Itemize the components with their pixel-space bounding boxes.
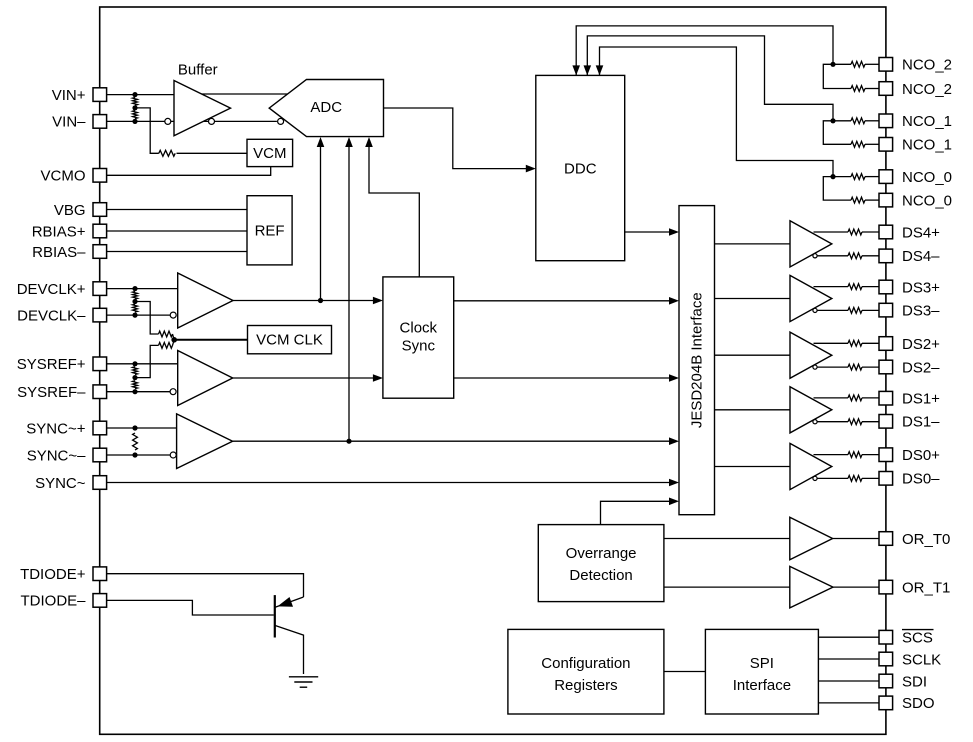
svg-text:DEVCLK+: DEVCLK+ [17, 281, 86, 298]
svg-text:VIN+: VIN+ [52, 87, 86, 104]
junction NCO_0 [830, 174, 835, 179]
bubble DS0- out [813, 476, 817, 480]
pin SYSREF– (left) [93, 385, 107, 399]
wire SYSREF mid tap to R [135, 345, 159, 377]
pin NCO_0 (right) [879, 193, 893, 207]
wire Clock Sync out 1 to JESD [454, 300, 677, 302]
pin DS1+ (right) [879, 391, 893, 405]
bubble DS3- out [813, 308, 817, 312]
wire NCO_2 loop [823, 64, 851, 88]
pin DEVCLK– (left) [93, 308, 107, 322]
resistor divider SYSREF upper [133, 367, 138, 375]
svg-text:OR_T1: OR_T1 [902, 579, 950, 596]
Overrange Detection block [538, 525, 664, 602]
pin DS4+ (right) [879, 225, 893, 239]
pin NCO_1 (right) [879, 138, 893, 152]
svg-text:DS2–: DS2– [902, 359, 940, 376]
wire DS4+ out [814, 231, 849, 233]
wire DS3+ out [814, 286, 849, 288]
pin DS0– (right) [879, 472, 893, 486]
junction DEVCLK out [318, 298, 323, 303]
junction DEVCLK+ tap [132, 286, 137, 291]
svg-text:TDIODE–: TDIODE– [20, 593, 86, 610]
wire SYNC buffer out to JESD [233, 440, 677, 442]
wire NCO_1 lower to pin [865, 143, 879, 145]
wire DS0+ out [814, 454, 849, 456]
svg-text:SDI: SDI [902, 673, 927, 690]
wire DEVCLK+ to buffer [107, 288, 178, 290]
wire DS2+ to pin [862, 342, 879, 344]
wire DS1- out [817, 421, 849, 423]
svg-text:DS3–: DS3– [902, 302, 940, 319]
wire DS1+ to pin [862, 397, 879, 399]
svg-text:NCO_2: NCO_2 [902, 57, 952, 74]
svg-text:NCO_1: NCO_1 [902, 113, 952, 130]
pin SCLK (right) [879, 652, 893, 666]
wire TDIODE- to transistor base [107, 600, 274, 615]
svg-text:DS3+: DS3+ [902, 279, 940, 296]
chip boundary [100, 7, 886, 734]
pin SDO (right) [879, 696, 893, 710]
pin TDIODE– (left) [93, 594, 107, 608]
wire DS4- to pin [862, 255, 879, 257]
wire Overrange out 1 [664, 586, 790, 588]
resistor NCO_1 lower [851, 141, 865, 147]
svg-text:DDC: DDC [564, 160, 597, 177]
DDC block [536, 75, 625, 260]
VCM CLK block [248, 326, 332, 354]
wire SYSREF buffer out to Clock Sync [233, 377, 381, 379]
wire SYNC~ pin to JESD [107, 482, 677, 484]
wire VIN- to ADC lower slant [107, 120, 277, 122]
pin SYSREF+ (left) [93, 357, 107, 371]
pin SYNC~+ (left) [93, 421, 107, 435]
pin DS2– (right) [879, 360, 893, 374]
wire NCO_0 upper lead [833, 176, 851, 178]
svg-text:RBIAS–: RBIAS– [32, 244, 86, 261]
wire DEVCLK buffer out to Clock Sync [233, 300, 381, 302]
svg-text:VCM CLK: VCM CLK [256, 332, 323, 349]
svg-text:DS1–: DS1– [902, 414, 940, 431]
wire SYSREF- to buffer [107, 391, 170, 393]
junction SYSREF- tap [132, 389, 137, 394]
resistor NCO_0 lower [851, 197, 865, 203]
bubble SYSREF- input [170, 389, 176, 395]
svg-text:TDIODE+: TDIODE+ [20, 566, 86, 583]
svg-text:DS1+: DS1+ [902, 391, 940, 408]
wire DEVCLK mid tap to R [135, 302, 159, 335]
resistor DS4- [848, 253, 862, 259]
driver OR_T0 [790, 517, 833, 559]
svg-text:NCO_1: NCO_1 [902, 137, 952, 154]
junction VIN+ tap [132, 92, 137, 97]
svg-text:SYNC~: SYNC~ [35, 475, 86, 492]
pin VIN– (left) [93, 115, 107, 129]
wire NCO_2 feed [576, 26, 833, 86]
resistor divider VIN upper [133, 98, 138, 106]
junction SYSREF mid tap [132, 375, 137, 380]
SPI Interface block [705, 629, 818, 714]
wire resistor to VCM box [177, 152, 248, 154]
wire Overrange to JESD [601, 501, 677, 524]
svg-text:VCMO: VCMO [41, 168, 86, 185]
arrowhead into Clock Sync bottom input [373, 374, 383, 382]
bubble SYNC- input [170, 452, 176, 458]
pin SYNC~– (left) [93, 448, 107, 462]
bubble buffer mid [209, 118, 215, 124]
resistor divider DEVCLK lower [133, 304, 138, 312]
clock buffer U2 DEVCLK [178, 273, 233, 328]
junction NCO_2 [830, 62, 835, 67]
junction VCM CLK [171, 337, 177, 343]
bubble ADC input [278, 118, 284, 124]
resistor NCO_2 upper [851, 61, 865, 67]
wire DS3- to pin [862, 309, 879, 311]
wire DS3+ to pin [862, 286, 879, 288]
arrowhead NCO_0 into DDC [596, 65, 604, 75]
wire SYNC+ to buffer [107, 427, 177, 429]
svg-text:SCLK: SCLK [902, 651, 941, 668]
svg-text:OR_T0: OR_T0 [902, 531, 950, 548]
junction DEVCLK mid tap [132, 299, 137, 304]
svg-text:Buffer: Buffer [178, 62, 218, 79]
wire NCO_1 feed [587, 36, 833, 121]
resistor R to VCM [159, 150, 175, 156]
resistor DS3+ [848, 284, 862, 290]
pin VBG (left) [93, 203, 107, 217]
pin OR_T0 (right) [879, 532, 893, 546]
driver DS2 [790, 332, 832, 378]
wire VIN+ to buffer [107, 94, 174, 96]
wire NCO_2 upper to pin [865, 63, 879, 65]
wire VCM input tap [135, 108, 159, 153]
bubble DS4- out [813, 254, 817, 258]
svg-text:DS2+: DS2+ [902, 336, 940, 353]
wire NCO_0 feed [600, 47, 834, 177]
svg-text:NCO_0: NCO_0 [902, 192, 952, 209]
wire NCO_0 upper to pin [865, 176, 879, 178]
svg-text:DEVCLK–: DEVCLK– [17, 307, 86, 324]
arrowhead into Clock Sync top input [373, 297, 383, 305]
clock buffer U3 SYSREF [178, 351, 233, 406]
wire SPI to SDI pin [818, 680, 879, 682]
wire NCO_0 lower to pin [865, 199, 879, 201]
resistor divider DEVCLK upper [133, 292, 138, 300]
resistor NCO_2 lower [851, 86, 865, 92]
resistor divider VIN lower [133, 111, 138, 119]
pin VIN+ (left) [93, 88, 107, 102]
pin NCO_0 (right) [879, 170, 893, 184]
arrowhead sysref into JESD [669, 374, 679, 382]
arrowhead SYNC~ into JESD [669, 479, 679, 487]
pin DEVCLK+ (left) [93, 282, 107, 296]
wire Config Registers to SPI [664, 671, 706, 673]
svg-text:VCM: VCM [253, 145, 286, 162]
svg-text:SYSREF+: SYSREF+ [17, 356, 86, 373]
ADC block [269, 80, 383, 137]
wire DS1+ out [814, 397, 849, 399]
svg-text:VIN–: VIN– [52, 114, 86, 131]
bubble DS1- out [813, 420, 817, 424]
resistor NCO_0 upper [851, 174, 865, 180]
wire clock to ADC sample input [320, 140, 322, 301]
wire R join to VCM CLK box [173, 334, 175, 345]
resistor R to VCM CLK lower [159, 343, 173, 349]
junction NCO_1 [830, 118, 835, 123]
REF block [247, 196, 292, 265]
wire NCO_1 upper to pin [865, 120, 879, 122]
wire RBIAS+ to REF [107, 230, 247, 232]
wire DS0- out [817, 477, 849, 479]
arrowhead DDC into JESD [669, 228, 679, 236]
svg-text:JESD204B Interface: JESD204B Interface [688, 292, 705, 428]
arrowhead NCO_1 into DDC [584, 65, 592, 75]
svg-text:DS4–: DS4– [902, 248, 940, 265]
arrowhead into DDC [526, 165, 536, 173]
wire DS1- to pin [862, 421, 879, 423]
svg-text:DS0+: DS0+ [902, 447, 940, 464]
wire DS4- out [817, 255, 849, 257]
pin DS3– (right) [879, 303, 893, 317]
resistor DS2+ [848, 340, 862, 346]
bubble buffer input [165, 118, 171, 124]
svg-text:NCO_0: NCO_0 [902, 169, 952, 186]
wire SYNC- to buffer [107, 454, 170, 456]
wire buffer top to ADC upper slant [199, 93, 287, 95]
svg-text:SYSREF–: SYSREF– [17, 384, 86, 401]
resistor divider SYSREF lower [133, 381, 138, 389]
arrowhead NCO_2 into DDC [572, 65, 580, 75]
wire VBG to REF [107, 209, 247, 211]
transistor Q1 emitter [275, 597, 304, 607]
wire DS3- out [817, 309, 849, 311]
wire ADC out to DDC [384, 108, 534, 169]
svg-text:SYNC~–: SYNC~– [27, 447, 86, 464]
wire NCO_1 upper lead [833, 120, 851, 122]
wire JESD to DS2 driver [715, 354, 791, 356]
junction SYSREF+ tap [132, 361, 137, 366]
svg-text:REF: REF [255, 223, 285, 240]
VCM block [247, 139, 293, 166]
pin SYNC~ (left) [93, 476, 107, 490]
arrowhead into ADC pin 2 [345, 137, 353, 147]
driver DS3 [790, 275, 832, 321]
wire JESD to DS1 driver [715, 409, 791, 411]
arrowhead into ADC pin 1 [317, 137, 325, 147]
wire SPI to SCS pin [818, 636, 879, 638]
pin SDI (right) [879, 674, 893, 688]
driver DS1 [790, 387, 832, 433]
transistor Q1 emitter arrow [278, 597, 294, 607]
pin SCS (right) [879, 630, 893, 644]
wire Clock Sync up to ADC [369, 140, 419, 277]
arrowhead into ADC pin 3 [365, 137, 373, 147]
junction SYNC out [346, 439, 351, 444]
svg-text:NCO_2: NCO_2 [902, 81, 952, 98]
junction DEVCLK- tap [132, 313, 137, 318]
wire DDC out to JESD [625, 231, 677, 233]
svg-text:ADC: ADC [310, 99, 342, 116]
svg-text:RBIAS+: RBIAS+ [32, 223, 86, 240]
junction VIN- tap [132, 119, 137, 124]
buffer U1 (input buffer) [174, 81, 231, 136]
arrowhead SYNC into JESD [669, 437, 679, 445]
pin VCMO (left) [93, 169, 107, 183]
pin NCO_2 (right) [879, 58, 893, 72]
bubble DS2- out [813, 365, 817, 369]
resistor DS0- [848, 476, 862, 482]
pin RBIAS– (left) [93, 245, 107, 259]
wire RBIAS- to REF [107, 251, 247, 253]
wire SYSREF+ to buffer [107, 363, 178, 365]
transistor Q1 base bar [274, 595, 276, 637]
wire JESD to DS4 driver [715, 243, 791, 245]
pin NCO_2 (right) [879, 82, 893, 96]
junction VIN mid tap [132, 105, 137, 110]
resistor R to VCM CLK upper [159, 331, 173, 337]
pin RBIAS+ (left) [93, 224, 107, 238]
wire NCO_2 lower to pin [865, 88, 879, 90]
wire NCO_1 loop [823, 121, 851, 145]
resistor DS2- [848, 364, 862, 370]
svg-text:DS0–: DS0– [902, 471, 940, 488]
wire TDIODE+ to transistor emitter [107, 574, 304, 597]
resistor NCO_1 upper [851, 118, 865, 124]
clock buffer U4 SYNC [177, 414, 233, 469]
wire JESD to DS3 driver [715, 298, 791, 300]
resistor SYNC termination [133, 433, 138, 450]
svg-text:ClockSync: ClockSync [400, 320, 438, 355]
wire SYNC out up to ADC [348, 140, 350, 442]
driver OR_T1 [790, 566, 833, 608]
junction SYNC+ tap [132, 425, 137, 430]
resistor DS1+ [848, 395, 862, 401]
Configuration Registers block [508, 629, 664, 714]
wire DS0- to pin [862, 477, 879, 479]
wire Overrange out 0 [664, 538, 790, 540]
Clock Sync block [383, 277, 454, 398]
svg-text:DS4+: DS4+ [902, 224, 940, 241]
resistor DS3- [848, 308, 862, 314]
wire DEVCLK- to buffer [107, 314, 170, 316]
wire NCO_0 loop [823, 177, 851, 201]
pin DS3+ (right) [879, 280, 893, 294]
junction SYNC- tap [132, 452, 137, 457]
resistor DS1- [848, 419, 862, 425]
transistor Q1 collector [275, 625, 304, 674]
svg-text:VBG: VBG [54, 202, 86, 219]
arrowhead clock into JESD [669, 297, 679, 305]
wire OR_T0 driver to pin [833, 538, 879, 540]
svg-text:SCS: SCS [902, 630, 933, 647]
pin DS2+ (right) [879, 337, 893, 351]
ground symbol [289, 677, 318, 687]
wire JESD to DS0 driver [715, 466, 791, 468]
wire DS4+ to pin [862, 231, 879, 233]
bubble DEVCLK- input [170, 312, 176, 318]
resistor DS0+ [848, 452, 862, 458]
wire Clock Sync out 2 to JESD [454, 377, 677, 379]
driver DS4 [790, 221, 832, 267]
svg-text:SYNC~+: SYNC~+ [26, 420, 85, 437]
wire DS2- out [817, 366, 849, 368]
wire VCMO to VCM box [107, 167, 271, 176]
pin TDIODE+ (left) [93, 567, 107, 581]
wire DS0+ to pin [862, 454, 879, 456]
wire DS2+ out [814, 342, 849, 344]
wire OR_T1 driver to pin [833, 586, 879, 588]
driver DS0 [790, 443, 832, 489]
pin OR_T1 (right) [879, 580, 893, 594]
pin DS0+ (right) [879, 448, 893, 462]
arrowhead overrange into JESD [669, 498, 679, 506]
svg-text:SDO: SDO [902, 695, 935, 712]
wire SPI to SCLK pin [818, 658, 879, 660]
pin DS1– (right) [879, 415, 893, 429]
wire NCO_2 upper lead [833, 63, 851, 65]
pin NCO_1 (right) [879, 114, 893, 128]
resistor DS4+ [848, 229, 862, 235]
wire DS2- to pin [862, 366, 879, 368]
JESD204B Interface block [679, 206, 715, 515]
wire SPI to SDO pin [818, 702, 879, 704]
pin DS4– (right) [879, 249, 893, 263]
